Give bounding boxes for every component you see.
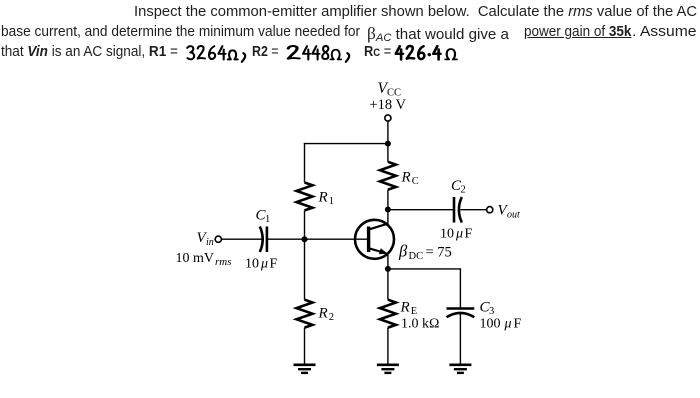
wire right vertical upper xyxy=(387,144,389,162)
label R2 xyxy=(318,306,335,324)
wire base node to R2 xyxy=(304,239,306,300)
svg-text:R: R xyxy=(318,190,328,206)
paragraph line 3a xyxy=(1,44,178,60)
wire RC to collector node xyxy=(387,190,389,210)
label 100 uF xyxy=(480,317,522,332)
handwritten value RC = 426.4 ohm (bold marker) xyxy=(396,46,457,59)
wire C1 to base node xyxy=(267,238,305,240)
svg-text:R: R xyxy=(400,300,410,316)
wire collector node to C2 xyxy=(388,209,454,211)
junction emitter node xyxy=(385,266,391,272)
wire R2 to ground xyxy=(304,328,306,364)
label RE xyxy=(400,300,418,318)
resistor RC xyxy=(380,162,396,190)
svg-text:μ: μ xyxy=(260,257,268,272)
wire left vertical upper xyxy=(304,143,306,183)
capacitor C2 xyxy=(454,197,462,223)
svg-text:1.0 kΩ: 1.0 kΩ xyxy=(401,317,439,332)
handwritten value R2 = 2448 ohm xyxy=(288,46,341,59)
paragraph line 1 xyxy=(134,4,697,20)
svg-text:out: out xyxy=(507,210,520,221)
resistor R1 xyxy=(297,183,313,211)
capacitor C1 xyxy=(260,227,267,253)
svg-text:F: F xyxy=(465,227,473,242)
svg-text:μ: μ xyxy=(504,317,512,332)
label R1 xyxy=(318,190,335,208)
paragraph line 2c underlined xyxy=(524,24,631,40)
svg-text:β: β xyxy=(398,242,408,261)
label beta DC = 75 xyxy=(398,242,452,263)
paragraph line 3b xyxy=(252,44,279,60)
svg-text:2: 2 xyxy=(461,185,466,196)
svg-text:1: 1 xyxy=(265,214,270,225)
ground RE branch xyxy=(377,365,399,373)
junction base node xyxy=(302,236,308,242)
handwritten value R1 = 3264 ohm xyxy=(187,46,238,59)
svg-text:R: R xyxy=(318,306,328,322)
wire collector node to Q1 collector xyxy=(387,210,389,226)
svg-text:in: in xyxy=(206,237,214,248)
svg-text:DC: DC xyxy=(409,251,424,262)
label Vout xyxy=(498,203,521,221)
paragraph line 2a xyxy=(1,24,364,40)
svg-text:E: E xyxy=(411,306,417,317)
handwritten comma after 3264 ohm xyxy=(242,53,245,62)
wire R1 to base node xyxy=(304,210,306,239)
ground C3 branch xyxy=(449,365,471,373)
transistor Q1 xyxy=(355,220,394,259)
label C3 xyxy=(480,300,495,318)
label 10 uF C2 xyxy=(440,227,473,242)
resistor R2 xyxy=(297,300,313,328)
svg-text:10 mV: 10 mV xyxy=(176,251,215,266)
wire RE to ground xyxy=(387,328,389,364)
svg-text:F: F xyxy=(270,257,278,272)
paragraph line 2b: beta AC that would give a xyxy=(367,24,513,44)
svg-text:10: 10 xyxy=(245,257,259,272)
handwritten comma after 2448 ohm xyxy=(346,53,349,62)
label RC xyxy=(401,170,419,188)
wire Q1 emitter to emitter node xyxy=(387,254,389,269)
svg-text:1: 1 xyxy=(329,196,334,207)
wire C3 to ground xyxy=(459,314,461,364)
label 10 uF C1 xyxy=(245,257,278,272)
label 10 mVrms xyxy=(176,251,232,268)
paragraph line 3c xyxy=(364,44,391,60)
paragraph line 2d xyxy=(632,24,697,40)
svg-text:10: 10 xyxy=(440,227,454,242)
svg-text:R: R xyxy=(401,170,411,186)
terminal VCC xyxy=(385,115,391,121)
label +18 V xyxy=(370,97,407,113)
capacitor C3 xyxy=(447,309,475,318)
svg-text:rms: rms xyxy=(215,256,232,268)
wire C2 to Vout xyxy=(460,209,486,211)
wire Vin to C1 xyxy=(221,238,261,240)
wire emitter node to RE xyxy=(387,269,389,300)
label Vin xyxy=(197,230,214,248)
svg-text:2: 2 xyxy=(329,312,334,323)
svg-text:F: F xyxy=(514,317,522,332)
wire top horizontal xyxy=(304,143,388,145)
svg-text:3: 3 xyxy=(489,306,494,317)
svg-text:+18 V: +18 V xyxy=(370,97,407,113)
label C2 xyxy=(451,178,466,196)
wire emitter node to C3 xyxy=(388,269,461,308)
junction collector node xyxy=(385,207,391,213)
junction top node xyxy=(385,141,391,147)
wire VCC terminal to top junction xyxy=(387,121,389,144)
label VCC xyxy=(378,80,402,99)
terminal Vin xyxy=(215,236,221,242)
terminal Vout xyxy=(487,207,493,213)
svg-text:C: C xyxy=(412,176,419,187)
svg-text:μ: μ xyxy=(455,227,463,242)
label 1.0 kOhm xyxy=(401,317,439,332)
label C1 xyxy=(256,208,271,226)
ground R2 branch xyxy=(294,365,316,373)
wire base node to Q1 base xyxy=(305,238,368,240)
resistor RE xyxy=(380,300,396,328)
svg-text:= 75: = 75 xyxy=(426,245,452,261)
svg-text:100: 100 xyxy=(480,317,501,332)
